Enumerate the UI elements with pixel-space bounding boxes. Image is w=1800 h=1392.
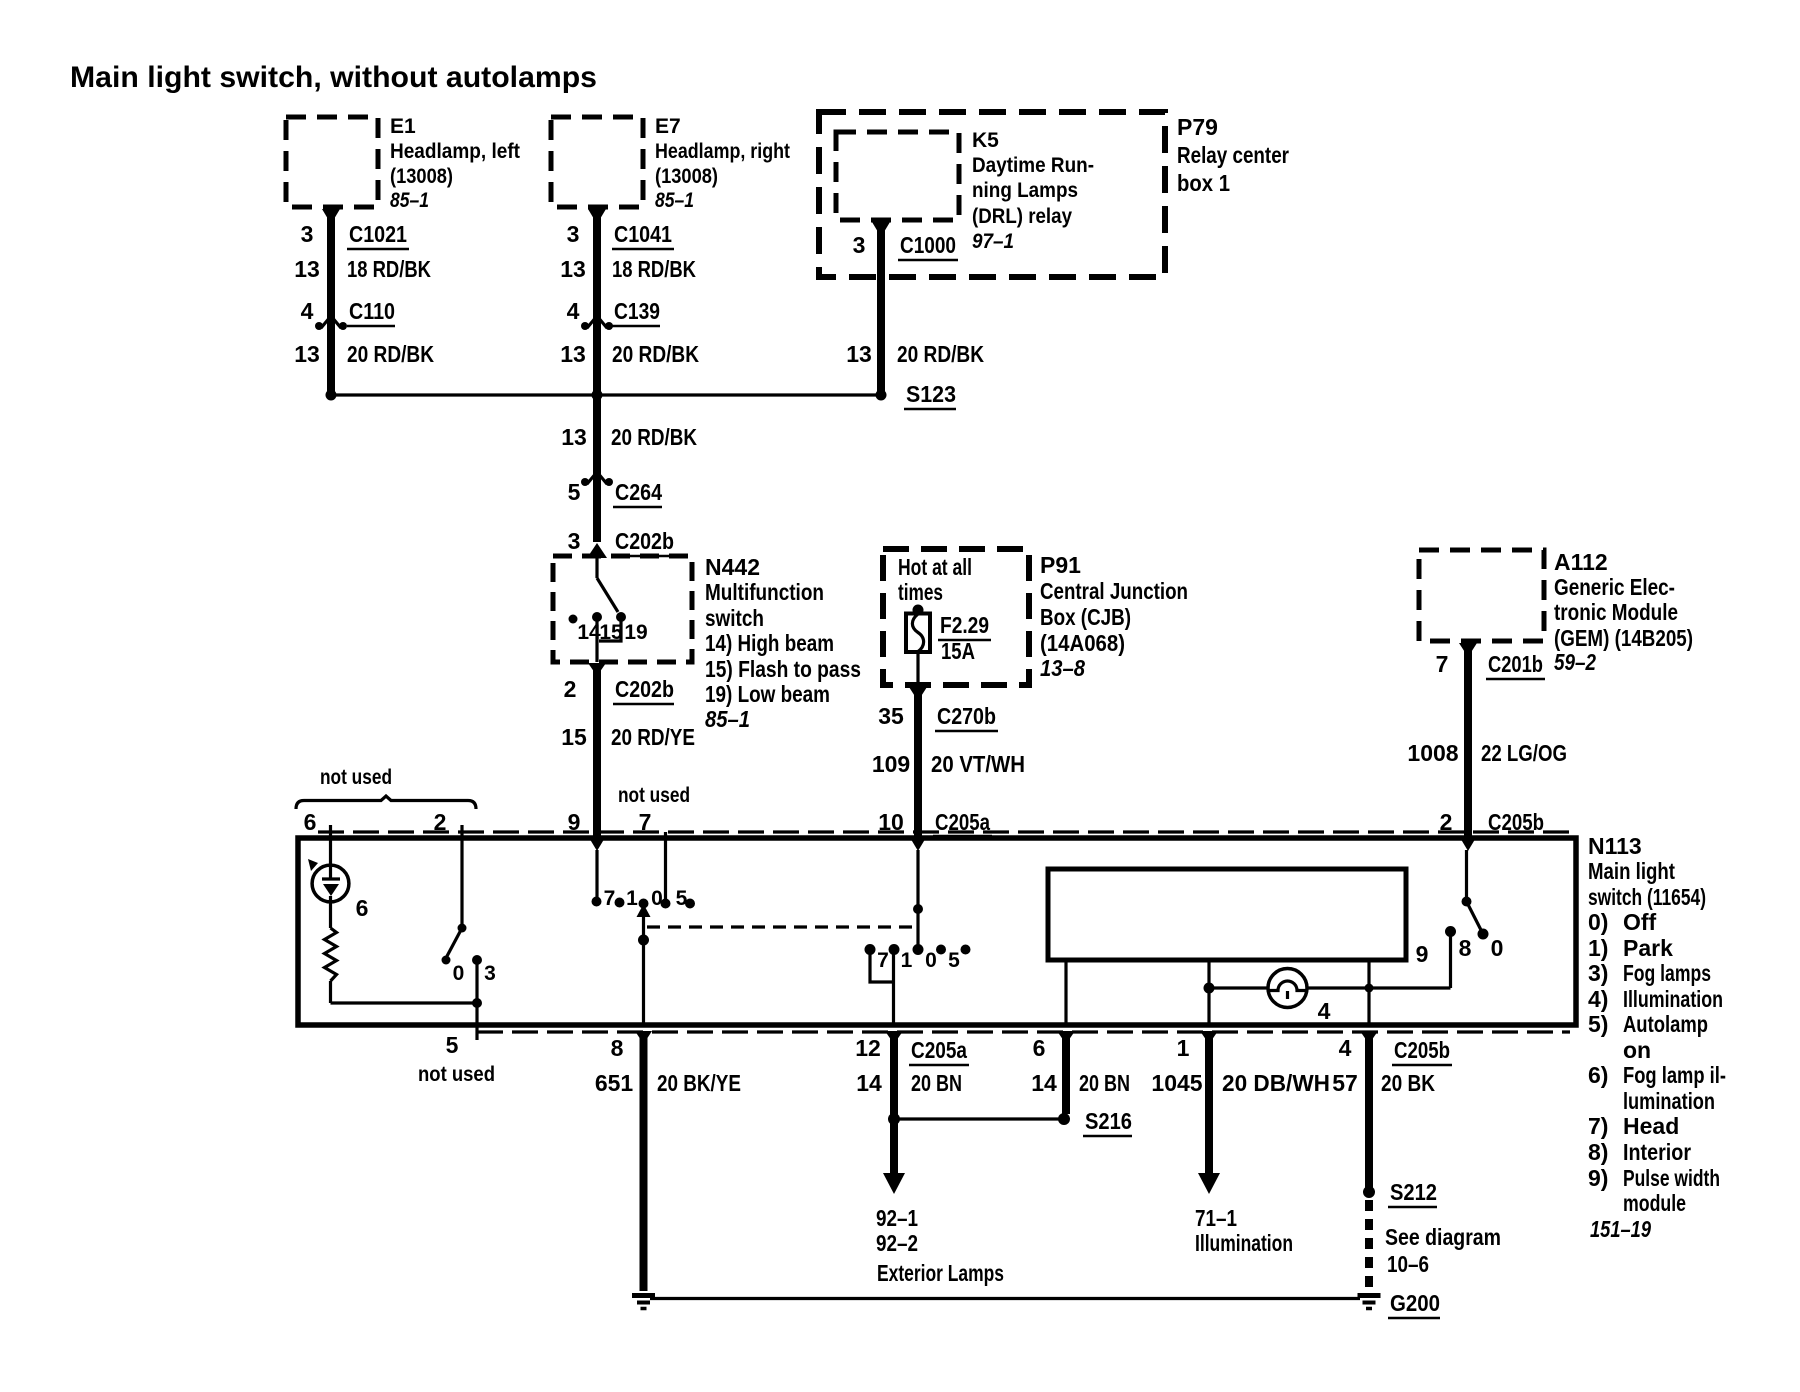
svg-text:(13008): (13008) [390,165,453,188]
svg-text:not used: not used [418,1063,495,1086]
svg-text:0: 0 [453,962,465,985]
svg-text:module: module [1623,1190,1686,1216]
svg-text:6: 6 [1033,1035,1046,1061]
headlamp left E1 box [286,117,378,207]
svg-text:Illumination: Illumination [1623,986,1723,1012]
multifunction switch N442 box [553,556,692,662]
svg-text:switch: switch [705,605,764,631]
wire E7 label 18 RD/BK [560,256,696,282]
svg-text:0: 0 [925,949,937,972]
wire label 14 20 BN left [856,1070,962,1096]
wire E7 pin3 to S123 [588,209,606,395]
svg-text:13–8: 13–8 [1040,655,1085,681]
connector C270b label [878,703,998,731]
svg-text:Head: Head [1623,1113,1679,1139]
svg-text:92–1: 92–1 [876,1205,918,1231]
fog lamp illumination LED symbol [308,859,349,902]
wire label 651 20 BK/YE [595,1070,741,1096]
svg-text:4: 4 [301,298,314,324]
svg-text:20 BK/YE: 20 BK/YE [657,1070,741,1096]
svg-text:12: 12 [855,1035,881,1061]
ground G200 label [1388,1290,1440,1318]
P91 exit arrow and wire to N113 pin10 [909,687,927,851]
svg-text:tronic Module: tronic Module [1554,599,1678,625]
svg-text:15: 15 [599,621,623,644]
svg-text:S216: S216 [1085,1108,1132,1134]
svg-text:22 LG/OG: 22 LG/OG [1481,740,1567,766]
svg-text:57: 57 [1332,1070,1358,1096]
svg-text:8): 8) [1588,1139,1608,1165]
contact labels 7 1 0 5 middle [604,887,688,910]
svg-text:C205b: C205b [1394,1037,1450,1063]
svg-text:0: 0 [651,887,663,910]
ground symbol left [632,1296,655,1309]
N442 contact labels 14 15 19 [577,621,647,644]
N442 exit arrow and wire to N113 [588,663,606,851]
wire K5 label 20 RD/BK [846,341,984,367]
headlamp right E7 box [551,117,643,207]
svg-text:5: 5 [568,479,581,505]
svg-text:C264: C264 [615,479,662,505]
svg-text:20 BN: 20 BN [1079,1070,1130,1096]
svg-text:(DRL) relay: (DRL) relay [972,205,1072,228]
svg-text:Daytime Run-: Daytime Run- [972,154,1094,177]
connector C202b entry arrow at N442 [587,543,607,558]
A112 exit arrow and wire to N113 pin2 [1459,643,1477,851]
fuse F2.29 [906,605,930,685]
connector C205b label pin2 [1440,809,1546,837]
svg-text:2: 2 [564,676,577,702]
svg-text:Off: Off [1623,909,1657,935]
wire K5 pin3 to S123 [872,222,890,395]
svg-text:C110: C110 [349,298,395,324]
svg-text:5): 5) [1588,1011,1608,1037]
wire E7 label 20 RD/BK [560,341,699,367]
svg-text:P79: P79 [1177,114,1218,140]
svg-text:0): 0) [1588,909,1608,935]
svg-text:1: 1 [626,887,638,910]
headlamp switch wiper arm [637,904,651,946]
splice S216 label [1083,1108,1132,1136]
park switch contact dots row [865,944,971,955]
svg-text:Fog lamp il-: Fog lamp il- [1623,1062,1726,1088]
svg-text:18 RD/BK: 18 RD/BK [347,256,431,282]
N113 right label block [1588,833,1726,1242]
svg-text:5: 5 [446,1032,459,1058]
svg-text:4): 4) [1588,986,1608,1012]
svg-text:15: 15 [561,724,587,750]
multifunction switch N442 label [705,554,861,732]
wire label 20 RD/YE [561,724,695,750]
pin 2 switch 0/3 [442,825,467,965]
svg-text:20 BK: 20 BK [1381,1070,1435,1096]
svg-text:3: 3 [853,232,866,258]
svg-text:Headlamp, right: Headlamp, right [655,140,790,163]
svg-text:35: 35 [878,703,904,729]
resistor [325,902,337,1003]
headlamp right E7 label [655,115,790,212]
svg-text:59–2: 59–2 [1554,649,1596,675]
svg-text:7: 7 [639,809,652,835]
wire E1 label 20 RD/BK [294,341,434,367]
svg-text:4: 4 [1318,998,1331,1024]
headlamp switch contact dots row [615,898,696,909]
svg-text:9: 9 [568,809,581,835]
ground wire between grounds [650,1297,1360,1300]
svg-text:K5: K5 [972,129,999,152]
svg-text:9: 9 [1416,941,1429,967]
svg-text:E1: E1 [390,115,416,138]
svg-text:switch (11654): switch (11654) [1588,884,1706,910]
svg-text:C202b: C202b [615,676,674,702]
connector C264 in-line symbol [581,472,613,486]
wire label 14 20 BN right [1031,1070,1130,1096]
generic electronic module A112 label [1554,549,1693,675]
svg-text:151–19: 151–19 [1590,1216,1651,1242]
svg-text:5: 5 [948,949,960,972]
wire E1 label pin4 C110 [301,298,395,326]
svg-text:109: 109 [872,751,910,777]
svg-text:C139: C139 [614,298,660,324]
svg-text:7: 7 [1436,651,1449,677]
svg-text:C1041: C1041 [614,221,672,247]
relay center P79 label [1177,114,1289,196]
central junction box P91 label [1040,552,1188,681]
wire K5 labels pin3 C1000 [853,232,958,260]
mechanical linkage dashed line [647,925,917,928]
svg-text:times: times [898,579,943,605]
svg-text:20 RD/BK: 20 RD/BK [897,341,984,367]
svg-text:not used: not used [320,766,392,789]
svg-text:Autolamp: Autolamp [1623,1011,1708,1037]
wire label 20 RD/BK below S123 [561,424,697,450]
svg-text:(GEM) (14B205): (GEM) (14B205) [1554,625,1693,651]
svg-text:8: 8 [611,1035,624,1061]
svg-text:4: 4 [1339,1035,1352,1061]
svg-text:A112: A112 [1554,549,1608,575]
svg-text:(13008): (13008) [655,165,718,188]
svg-text:14: 14 [1031,1070,1057,1096]
svg-text:8: 8 [1459,935,1472,961]
svg-text:Multifunction: Multifunction [705,579,824,605]
svg-text:Fog lamps: Fog lamps [1623,960,1711,986]
connector C110 in-line symbol [315,316,347,330]
svg-text:85–1: 85–1 [390,189,429,212]
svg-text:14: 14 [577,621,601,644]
not used bracket pins 6-2 [296,796,476,809]
DRL relay K5 box [836,132,959,220]
svg-text:15A: 15A [941,638,975,664]
svg-text:14: 14 [856,1070,882,1096]
svg-text:13: 13 [846,341,872,367]
svg-text:Box (CJB): Box (CJB) [1040,604,1131,630]
splice S212 label [1388,1179,1437,1207]
svg-text:97–1: 97–1 [972,230,1014,253]
svg-text:6): 6) [1588,1062,1608,1088]
svg-text:20 VT/WH: 20 VT/WH [931,751,1025,777]
svg-text:Illumination: Illumination [1195,1230,1293,1256]
svg-text:20 DB/WH: 20 DB/WH [1222,1070,1330,1096]
wire module to pin 6 [1064,960,1067,1025]
svg-text:85–1: 85–1 [655,189,694,212]
connector C202b label pin3 [568,528,674,556]
svg-text:7: 7 [604,887,616,910]
svg-text:ning Lamps: ning Lamps [972,179,1078,202]
contact labels 7 1 0 5 right [877,949,960,972]
svg-text:Park: Park [1623,935,1673,961]
svg-text:Exterior Lamps: Exterior Lamps [877,1260,1004,1286]
svg-text:not used: not used [618,784,690,807]
pin 4 exit arrow and wire [1360,1031,1378,1192]
svg-text:6: 6 [304,809,317,835]
svg-text:C1021: C1021 [349,221,407,247]
svg-text:6: 6 [356,895,369,921]
svg-text:Generic Elec-: Generic Elec- [1554,574,1675,600]
svg-text:C270b: C270b [937,703,996,729]
svg-text:1045: 1045 [1151,1070,1202,1096]
pin 5 stub not used [475,1003,478,1040]
svg-text:14) High beam: 14) High beam [705,630,834,656]
splice S212 [1363,1186,1375,1291]
svg-text:N442: N442 [705,554,760,580]
svg-text:C1000: C1000 [900,232,956,258]
svg-text:7: 7 [877,949,889,972]
svg-text:box 1: box 1 [1177,170,1230,196]
destination 92-1 92-2 Exterior Lamps [876,1205,1004,1286]
svg-text:3): 3) [1588,960,1608,986]
svg-text:N113: N113 [1588,833,1642,859]
svg-text:Main light switch, without aut: Main light switch, without autolamps [70,61,597,94]
svg-text:Interior: Interior [1623,1139,1691,1165]
interior switch contact 8 [1445,926,1456,988]
wire E1 label 18 RD/BK [294,256,431,282]
svg-text:18 RD/BK: 18 RD/BK [612,256,696,282]
wire label 20 VT/WH [872,751,1025,777]
N113 bottom connector dashed line [477,1030,1570,1033]
svg-text:See diagram: See diagram [1385,1224,1501,1250]
wire resistor to contact 3 [331,955,483,1008]
pulse width module inner box [1048,869,1406,960]
wire contact 7 to pin 12 column [870,952,894,982]
svg-text:3: 3 [568,528,581,554]
wire wiper to pin 8 [642,940,645,1025]
svg-text:S123: S123 [906,381,956,407]
wire module to pin 1 [1204,960,1215,1025]
svg-text:92–2: 92–2 [876,1230,918,1256]
svg-text:13: 13 [294,256,320,282]
svg-text:Central Junction: Central Junction [1040,578,1188,604]
pin 1 exit arrow and wire [1198,1031,1220,1194]
generic electronic module A112 box [1419,550,1544,641]
destination 71-1 Illumination [1195,1205,1293,1256]
svg-text:Headlamp, left: Headlamp, left [390,140,520,163]
central junction box P91 [883,549,1029,685]
fuse F2.29 label [938,612,991,664]
headlamp left E1 label [390,115,520,212]
svg-text:13: 13 [561,424,587,450]
pin 8 exit arrow and wire to ground [635,1031,652,1291]
wire E1 pin3 to S123 [322,209,340,395]
svg-text:1: 1 [1177,1035,1190,1061]
splice S123 label [904,381,956,409]
svg-text:71–1: 71–1 [1195,1205,1237,1231]
svg-text:C202b: C202b [615,528,674,554]
splice S123 wire [326,390,887,401]
pin 6 exit arrow and wire to S216 [1057,1031,1075,1114]
svg-text:13: 13 [560,256,586,282]
svg-text:85–1: 85–1 [705,706,750,732]
interior switch arm pin 2 [1462,850,1489,940]
P91 hot at all times label [898,554,972,605]
svg-text:lumination: lumination [1623,1088,1715,1114]
connector C205a label pin10 [878,809,992,836]
wire module to pin 4 [1365,960,1374,1025]
svg-text:Relay center: Relay center [1177,142,1289,168]
svg-text:19) Low beam: 19) Low beam [705,681,830,707]
connector C202b label pin2 [564,676,674,704]
svg-text:20 RD/BK: 20 RD/BK [612,341,699,367]
svg-text:C201b: C201b [1488,651,1543,677]
svg-text:Pulse width: Pulse width [1623,1165,1720,1191]
wire E1 labels pin3 C1021 [301,221,409,249]
wire label 22 LG/OG [1407,740,1567,766]
pin 10 wire inside N113 [913,850,924,955]
wire label 57 20 BK [1332,1070,1435,1096]
wire E7 label pin4 C139 [567,298,660,326]
wire S123 to N442 [593,395,601,542]
svg-text:1008: 1008 [1407,740,1458,766]
pin 4 label C205b [1339,1035,1452,1065]
wire contact 1 to pin 12 [892,952,895,1025]
svg-text:13: 13 [560,341,586,367]
pin 7 stub inside N113 [661,832,671,909]
illumination lamp symbol [1268,969,1307,1008]
svg-text:0: 0 [1491,935,1504,961]
svg-text:(14A068): (14A068) [1040,630,1125,656]
svg-text:9): 9) [1588,1165,1608,1191]
svg-text:19: 19 [624,621,647,644]
svg-text:1: 1 [901,949,913,972]
svg-text:15) Flash to pass: 15) Flash to pass [705,656,861,682]
pin 12 exit arrow and wire [883,1031,905,1194]
connector C264 label [568,479,663,507]
svg-text:E7: E7 [655,115,681,138]
svg-text:10–6: 10–6 [1387,1251,1429,1277]
see diagram 10-6 label [1385,1224,1501,1277]
splice S216 wire [894,1113,1070,1125]
svg-text:P91: P91 [1040,552,1081,578]
pin 12 label C205a [855,1035,969,1065]
svg-text:5: 5 [676,887,688,910]
svg-text:20 BN: 20 BN [911,1070,962,1096]
wire label 1045 20 DB/WH [1151,1070,1330,1096]
wire E7 labels pin3 C1041 [567,221,674,249]
connector C139 in-line symbol [581,316,613,330]
svg-text:F2.29: F2.29 [940,612,989,638]
svg-text:3: 3 [484,962,496,985]
pin 9 wire inside N113 [592,850,602,907]
DRL relay K5 label [972,129,1094,253]
svg-text:Main light: Main light [1588,858,1675,884]
svg-text:C205a: C205a [911,1037,967,1063]
svg-text:13: 13 [294,341,320,367]
svg-text:3: 3 [301,221,314,247]
illumination lamp wire [1209,986,1451,989]
pin 6 stub wire [329,825,332,866]
svg-text:G200: G200 [1390,1290,1440,1316]
svg-text:651: 651 [595,1070,634,1096]
ground symbol right G200 [1358,1296,1381,1309]
N113 top connector dashed line C205a/C205b [318,830,1570,833]
svg-text:1): 1) [1588,935,1608,961]
svg-text:20 RD/YE: 20 RD/YE [611,724,695,750]
N442 switch internals [569,558,627,662]
connector C201b label pin7 [1436,651,1545,679]
relay center box P79 [819,112,1165,277]
svg-text:Hot at all: Hot at all [898,554,972,580]
svg-text:2: 2 [434,809,447,835]
svg-text:4: 4 [567,298,580,324]
main light switch N113 box [298,838,1576,1025]
svg-text:20 RD/BK: 20 RD/BK [611,424,697,450]
svg-text:on: on [1623,1037,1651,1063]
svg-text:S212: S212 [1390,1179,1437,1205]
svg-text:7): 7) [1588,1113,1608,1139]
svg-text:20 RD/BK: 20 RD/BK [347,341,434,367]
svg-text:3: 3 [567,221,580,247]
